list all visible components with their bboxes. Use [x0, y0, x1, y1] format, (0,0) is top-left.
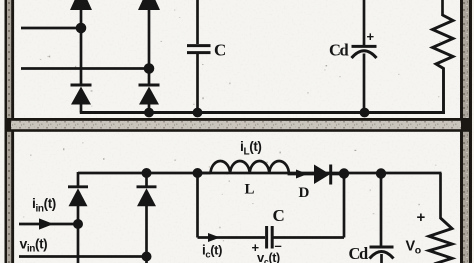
wire: input line 2 (top) [21, 67, 149, 70]
wire: right leg down to load [439, 173, 442, 219]
node: i_in line joins leg 1 [73, 219, 83, 229]
svg-text:Cd: Cd [329, 41, 349, 60]
left frame border [5, 0, 15, 263]
node: leg2 to bottom rail [144, 108, 154, 118]
diode lower-right of bridge (top section) [139, 85, 160, 113]
inductor L [198, 161, 315, 174]
wire: C branch horizontal right part [273, 236, 344, 239]
capacitor C (top section) [187, 0, 211, 113]
node: capacitor Cd to bottom rail [360, 108, 370, 118]
wire: top rail (bottom section) [78, 172, 442, 175]
svg-text:L: L [245, 182, 255, 198]
svg-text:vc(t): vc(t) [257, 250, 280, 263]
wire: C branch horizontal left part with arrow [198, 233, 266, 242]
middle horizontal frame border [5, 118, 473, 132]
wire: bottom rail (top section) [80, 111, 445, 114]
arrow on wire before diode D [296, 170, 308, 179]
svg-text:C: C [273, 206, 285, 225]
node: rail to leg 2 [142, 168, 152, 178]
diode lower-left of bridge (top section) [71, 85, 92, 113]
diode left of bridge (bottom section) [68, 172, 88, 263]
capacitor Cd (top section, polarized) [352, 0, 377, 113]
resistor load (top section) [433, 0, 454, 113]
wire: i_in input line with arrow [19, 218, 78, 229]
right frame border [460, 0, 472, 263]
resistor load (bottom section) [429, 218, 452, 263]
svg-text:+: + [367, 29, 375, 44]
capacitor C (bottom section) [267, 226, 273, 249]
svg-text:C: C [214, 41, 226, 60]
node: capacitor C to bottom rail [193, 108, 203, 118]
node: rail to inductor / C branch [193, 168, 203, 178]
diode right of bridge (bottom section) [137, 173, 157, 263]
node: junction of line 1 and bridge leg 1 [76, 23, 87, 34]
node: v_in line joins leg 2 [142, 252, 152, 262]
capacitor Cd (bottom section, polarized) [370, 173, 394, 263]
node: junction of line 2 and bridge leg 2 [144, 63, 155, 74]
node: rail to Cd branch (bottom) [376, 168, 386, 178]
diode D [314, 165, 344, 185]
node: after diode D [339, 168, 349, 178]
svg-text:Cd: Cd [349, 244, 369, 263]
wire: v_in input line [19, 255, 147, 258]
wire: input line 1 (top) [21, 27, 81, 30]
svg-text:D: D [299, 185, 310, 201]
diode upper-right of bridge (top section) [138, 0, 160, 85]
svg-text:+: + [417, 209, 426, 226]
wire: C branch up to node after D [343, 173, 346, 238]
wire: C branch down from rail [196, 173, 199, 238]
diode upper-left of bridge (top section) [70, 0, 92, 85]
